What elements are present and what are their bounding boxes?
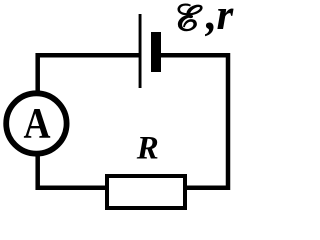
svg-text:,: , (205, 0, 217, 39)
svg-text:R: R (136, 131, 159, 167)
svg-text:A: A (23, 99, 50, 147)
svg-text:r: r (217, 0, 235, 39)
